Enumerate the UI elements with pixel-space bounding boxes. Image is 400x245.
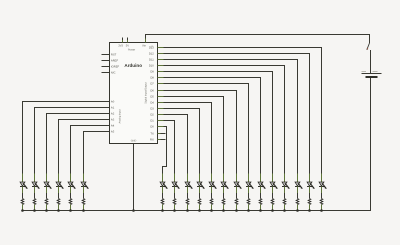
svg-text:D1: D1 (150, 120, 153, 123)
svg-text:D0: D0 (150, 126, 153, 129)
svg-text:IOREF: IOREF (111, 66, 120, 69)
svg-text:Digital Input/Output: Digital Input/Output (144, 82, 147, 104)
svg-text:A5: A5 (111, 131, 114, 134)
svg-text:A1: A1 (111, 107, 114, 110)
svg-text:D10: D10 (149, 65, 154, 68)
svg-text:Analog Input: Analog Input (118, 109, 121, 123)
svg-text:5V: 5V (126, 44, 129, 47)
svg-text:D9: D9 (150, 71, 153, 74)
svg-text:A3: A3 (111, 119, 114, 122)
svg-text:D4: D4 (150, 102, 153, 105)
svg-text:Arduino: Arduino (124, 63, 142, 68)
svg-text:D11: D11 (149, 59, 154, 62)
svg-text:D8: D8 (150, 77, 153, 80)
svg-text:A2: A2 (111, 113, 114, 116)
svg-text:D5: D5 (150, 96, 153, 99)
svg-text:RST: RST (111, 54, 117, 57)
svg-text:D13: D13 (149, 47, 154, 50)
svg-text:RX: RX (150, 139, 154, 142)
svg-text:AREF: AREF (111, 60, 119, 63)
svg-text:A0: A0 (111, 101, 114, 104)
svg-text:3V3: 3V3 (118, 44, 123, 47)
svg-text:D12: D12 (149, 53, 154, 56)
svg-text:Power: Power (128, 48, 135, 51)
svg-text:A4: A4 (111, 125, 114, 128)
svg-text:N/C: N/C (111, 72, 116, 75)
svg-text:D6: D6 (150, 90, 153, 93)
svg-text:D3: D3 (150, 108, 153, 111)
svg-text:Vin: Vin (142, 44, 146, 47)
svg-text:D7: D7 (150, 83, 153, 86)
svg-text:GND: GND (131, 140, 137, 143)
svg-text:D2: D2 (150, 114, 153, 117)
svg-text:TX: TX (150, 133, 154, 136)
